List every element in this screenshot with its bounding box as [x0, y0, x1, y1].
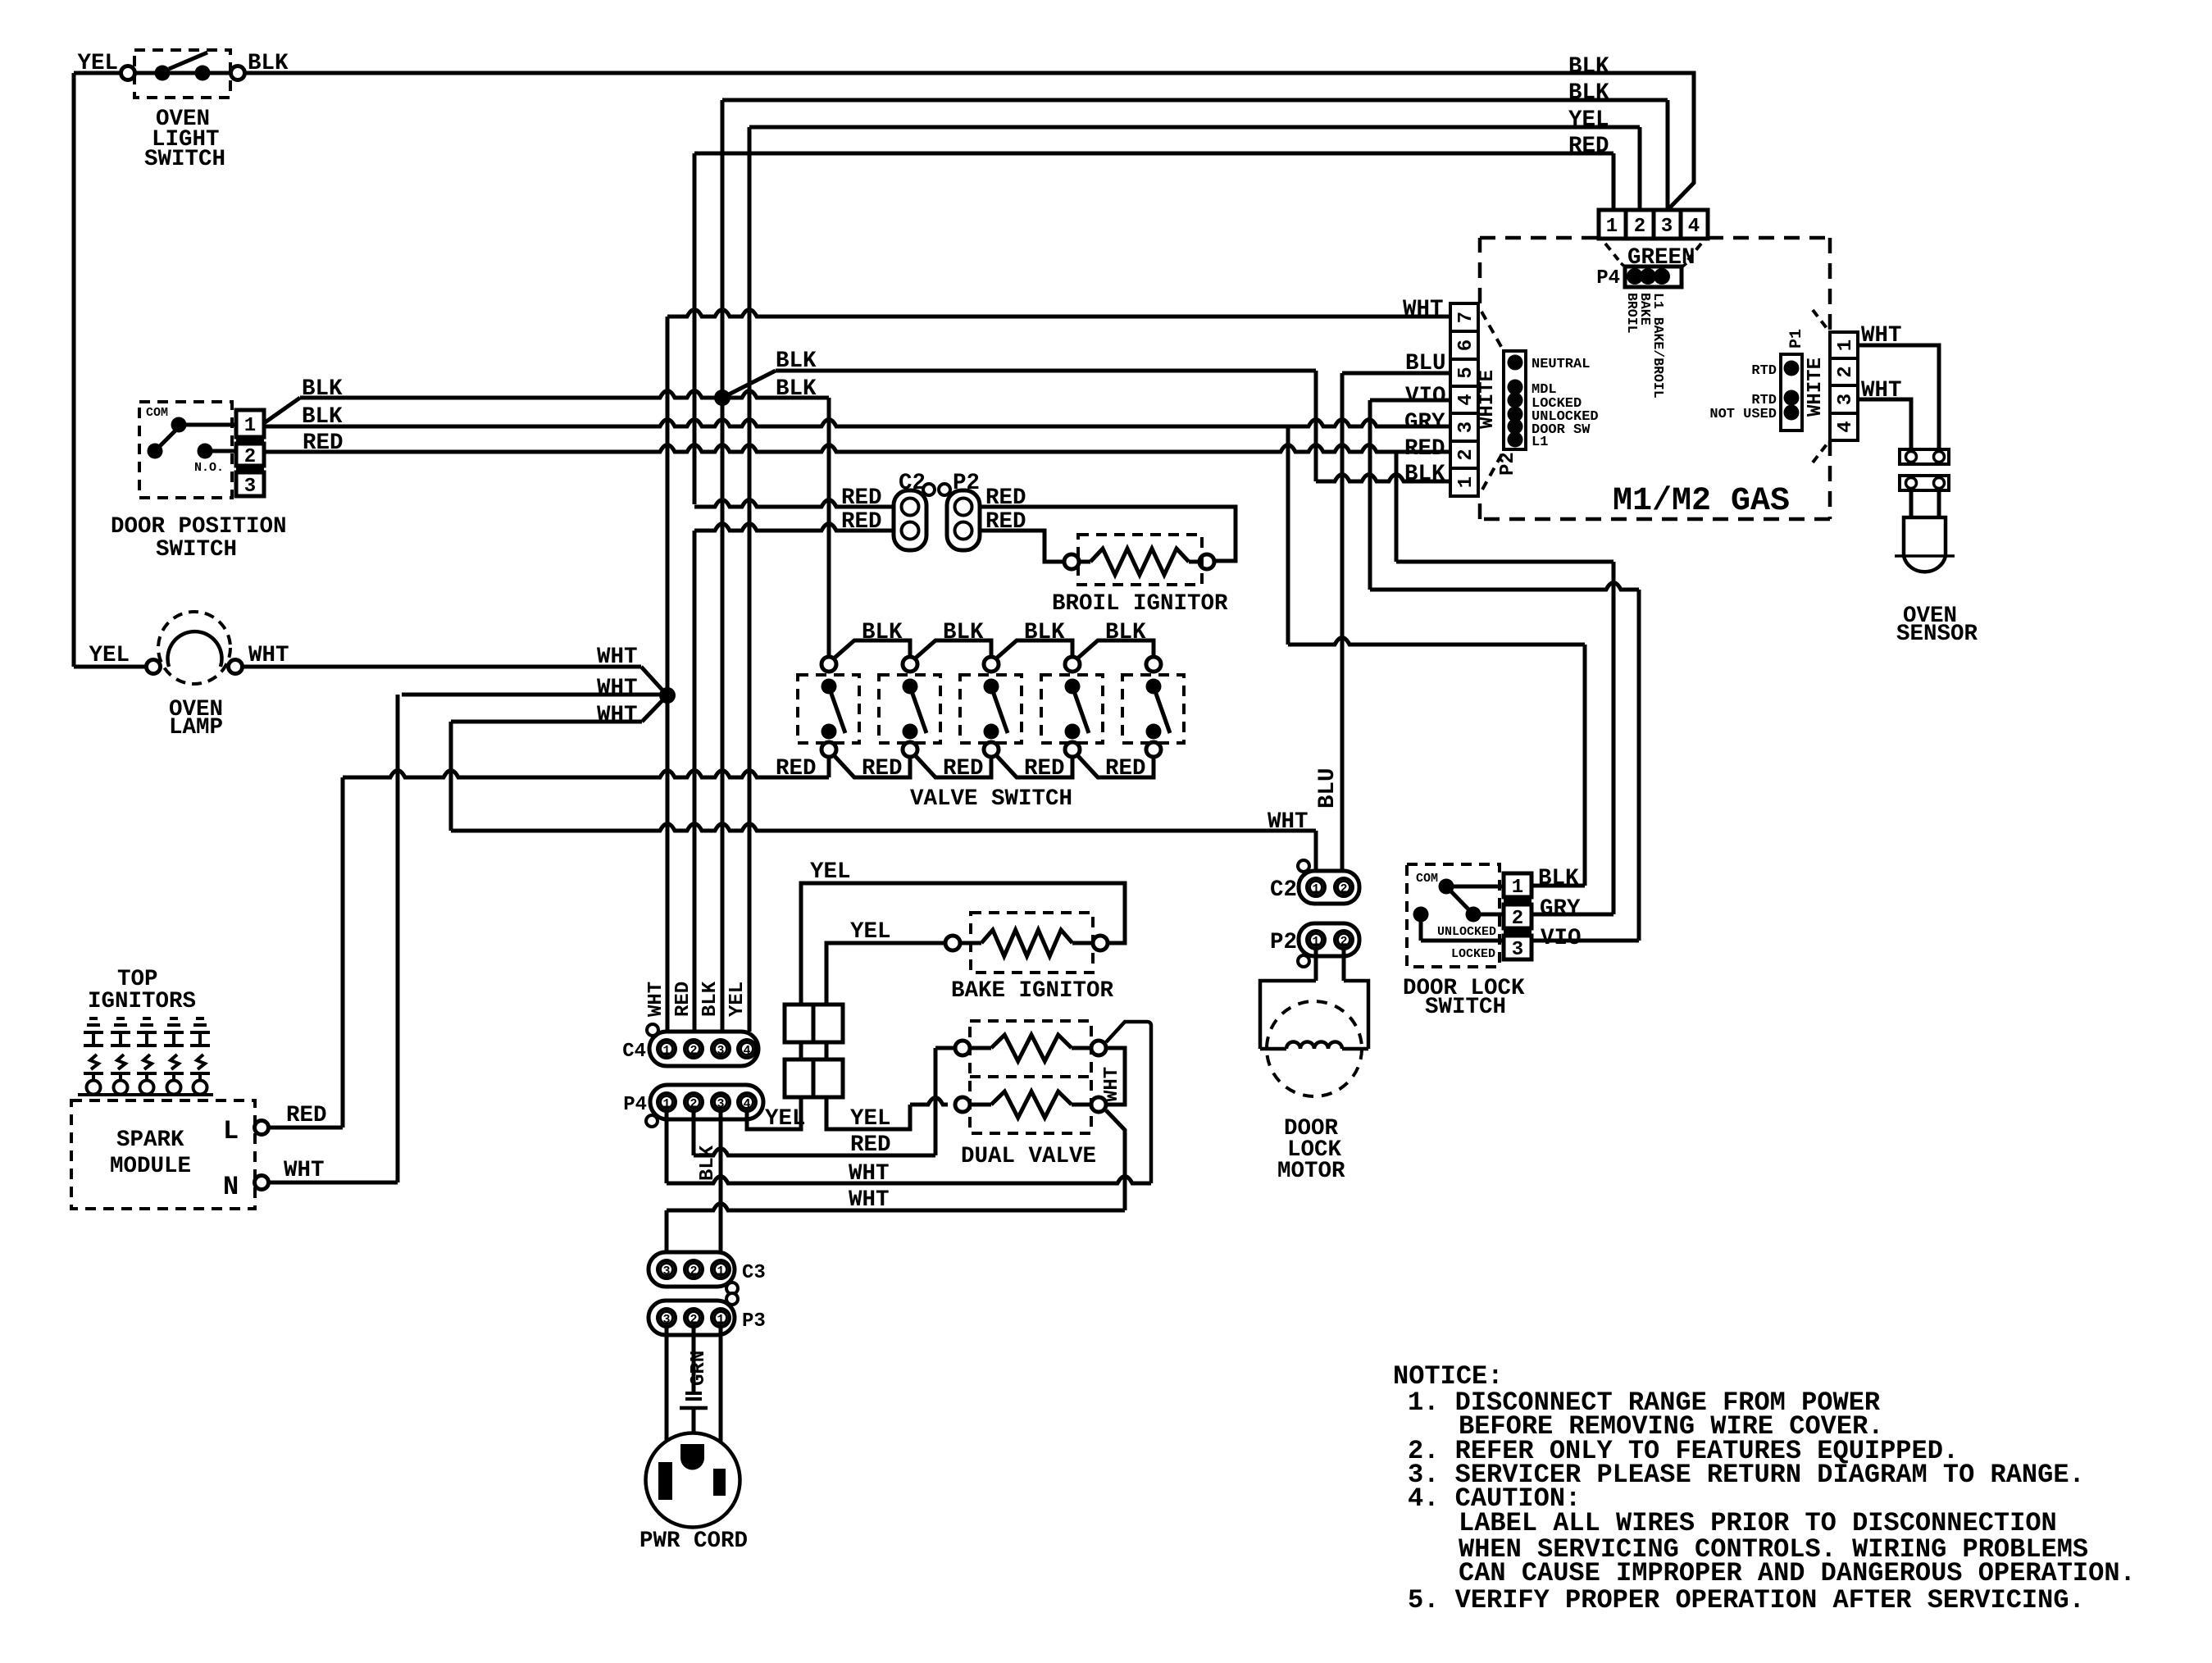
svg-text:RED: RED [672, 982, 694, 1017]
door lock switch SW3 [1407, 864, 1500, 967]
svg-text:SWITCH: SWITCH [144, 147, 225, 172]
vertical bus YEL x914 (to C4 pin 4) [748, 127, 752, 1032]
svg-text:IGNITORS: IGNITORS [88, 989, 196, 1014]
svg-text:LOCKED: LOCKED [1451, 947, 1495, 961]
spark module [71, 1100, 255, 1209]
svg-text:WHT: WHT [1403, 297, 1444, 322]
svg-text:C2: C2 [1270, 877, 1297, 903]
wire: RED from P2 to broil ignitor left side [980, 531, 1064, 562]
svg-text:CAN CAUSE IMPROPER AND DANGERO: CAN CAUSE IMPROPER AND DANGEROUS OPERATI… [1459, 1558, 2136, 1588]
valve switch SW4-5 [1122, 675, 1184, 743]
WHT link joining dual valve right terminals [1106, 1048, 1125, 1105]
svg-text:C4: C4 [622, 1041, 646, 1063]
wire: RED from spark module L terminal to valve switch feed [268, 1126, 343, 1130]
wires from P3 to power cord plug [665, 1328, 669, 1462]
wire: BLK from bus x881 to GREEN pin 3 [722, 98, 1668, 103]
svg-text:1: 1 [717, 1264, 724, 1278]
top ignitor electrode 2 [116, 1017, 125, 1020]
svg-text:3: 3 [244, 476, 256, 498]
WHT junction dot on bus x814 [659, 687, 676, 704]
svg-text:YEL: YEL [77, 51, 118, 76]
svg-text:2: 2 [1835, 366, 1857, 377]
svg-text:2: 2 [690, 1044, 697, 1058]
vertical bus BLK x881 (to C4 pin 3) [721, 100, 725, 1032]
svg-text:1: 1 [1455, 476, 1477, 488]
svg-text:L1: L1 [1532, 435, 1548, 450]
svg-text:1: 1 [1312, 935, 1319, 949]
svg-text:WHT: WHT [645, 982, 667, 1017]
svg-text:P3: P3 [742, 1310, 766, 1333]
svg-text:2: 2 [690, 1097, 697, 1111]
valve switch SW4-1 [798, 675, 859, 743]
svg-text:1: 1 [662, 1044, 670, 1058]
vertical bus RED x847 upper segment (to C2 pin 1) [693, 153, 697, 504]
wire: YEL from bus x914 to GREEN pin 2 [749, 125, 1640, 130]
wire: RED link valve switch 3 to 4 [996, 755, 1072, 777]
oven lamp LP1 [158, 612, 230, 684]
svg-text:5: 5 [1455, 367, 1477, 378]
svg-text:BLU: BLU [1315, 768, 1340, 809]
svg-text:YEL: YEL [765, 1106, 806, 1132]
svg-text:SWITCH: SWITCH [156, 537, 237, 563]
svg-text:P2: P2 [1270, 930, 1297, 955]
svg-text:L: L [223, 1116, 239, 1146]
P3 connector [649, 1301, 735, 1335]
door position switch SW2 [139, 402, 232, 498]
svg-text:RED: RED [1404, 436, 1445, 462]
top ignitor electrode 5 [196, 1017, 204, 1020]
svg-text:BLK: BLK [776, 349, 817, 374]
wire: BLK from P4 pin3 down to C3 pin1 [719, 1112, 723, 1252]
svg-text:WHT: WHT [1101, 1067, 1123, 1102]
valve switch SW4-2 [879, 675, 940, 743]
M1/M2 P1 connector (oven sensor RTD) [1813, 310, 1829, 462]
wire: WHT from oven lamp to WHT junction dot [242, 665, 641, 669]
wire: YEL from fuse box A to bake ignitor left side [826, 943, 945, 1005]
oven sensor bulb [1904, 517, 1946, 556]
svg-text:2: 2 [1512, 908, 1523, 930]
svg-text:N: N [223, 1172, 239, 1202]
svg-text:YEL: YEL [726, 982, 749, 1017]
svg-text:RED: RED [303, 431, 344, 456]
svg-text:RED: RED [943, 756, 984, 781]
wire: WHT to M1/M2 P2 pin 7 [667, 310, 1450, 317]
svg-text:WHT: WHT [1861, 378, 1902, 403]
svg-text:M1/M2 GAS: M1/M2 GAS [1613, 483, 1790, 520]
svg-text:2: 2 [690, 1264, 697, 1278]
wire: YEL from P4 pin4 up to fuse box B [747, 1097, 801, 1129]
door lock motor M1 [1314, 950, 1318, 981]
svg-text:WHT: WHT [849, 1187, 890, 1213]
M1/M2 GAS control dashed box [1480, 238, 1830, 519]
svg-text:5. VERIFY PROPER OPERATION AFT: 5. VERIFY PROPER OPERATION AFTER SERVICI… [1408, 1585, 2085, 1615]
svg-text:WHT: WHT [597, 676, 638, 701]
wire: WHT from P4 pin1 to dual valve right side [665, 1112, 669, 1183]
svg-text:BAKE IGNITOR: BAKE IGNITOR [951, 978, 1114, 1004]
svg-text:P1: P1 [1787, 329, 1806, 349]
svg-text:4: 4 [743, 1097, 750, 1111]
wire: main top BLK wire from oven light switch to GREEN pin 4 [244, 73, 1694, 210]
svg-text:WHT: WHT [1861, 323, 1902, 349]
svg-text:RED: RED [841, 509, 882, 535]
svg-text:WHT: WHT [284, 1158, 325, 1183]
oven sensor terminal blocks [1900, 449, 1949, 464]
door lock switch connector 1-2-3 [1504, 873, 1532, 897]
svg-text:3: 3 [717, 1044, 724, 1058]
svg-text:SPARK: SPARK [116, 1128, 184, 1153]
svg-text:VIO: VIO [1541, 926, 1582, 951]
wire: YEL from fuse box B to dual valve lower coil [826, 1097, 910, 1129]
wire: WHT from P1 pin 1 to oven sensor [1858, 345, 1939, 449]
wire: RED from bus x847 to GREEN pin 1 [694, 152, 1613, 156]
wire: WHT from dual valve lower right to C3 pin 3 [1106, 1110, 1125, 1210]
svg-text:2: 2 [1340, 935, 1347, 949]
svg-text:P2: P2 [1497, 452, 1519, 476]
GREEN connector 1-4 on top of M1/M2 box [1599, 210, 1708, 239]
svg-text:3: 3 [1835, 394, 1857, 405]
wire: left YEL vertical bus from oven light switch down to oven lamp [74, 71, 121, 75]
svg-text:BLK: BLK [248, 51, 289, 76]
svg-text:1: 1 [717, 1313, 724, 1327]
wire: BLK/BLU horizontal y453 to P2 pin 1 via x1605 [776, 369, 1316, 373]
svg-text:4: 4 [743, 1044, 750, 1058]
svg-text:C2: C2 [899, 471, 926, 496]
svg-text:WHITE: WHITE [1805, 358, 1827, 417]
svg-text:4: 4 [1688, 216, 1700, 238]
branch RED down to door lock switch pin 2 [1395, 452, 1399, 562]
svg-text:RED: RED [1024, 756, 1065, 781]
svg-text:MODULE: MODULE [110, 1154, 191, 1179]
svg-text:4: 4 [1835, 421, 1857, 432]
svg-text:2: 2 [244, 446, 256, 468]
svg-text:YEL: YEL [850, 1106, 891, 1132]
svg-text:BLK: BLK [1568, 80, 1609, 106]
funnel + WHITE pin strip inside M1/M2 [1481, 312, 1504, 490]
svg-text:WHT: WHT [248, 643, 289, 668]
svg-text:1: 1 [244, 415, 256, 437]
svg-text:2: 2 [690, 1313, 697, 1327]
svg-text:BLK: BLK [1404, 462, 1445, 487]
svg-text:N.O.: N.O. [194, 461, 224, 475]
svg-text:WHITE: WHITE [1477, 370, 1499, 429]
top ignitor electrode 1 [89, 1017, 98, 1020]
svg-text:3: 3 [1455, 421, 1477, 433]
branch GRY down to door lock switch pin 1 [1286, 426, 1290, 645]
broil ignitor R1 [1064, 554, 1079, 569]
junction dot at BLK bus [722, 371, 776, 398]
svg-text:WHT: WHT [597, 703, 638, 728]
C2/P2 connector pair (broil circuit) [694, 500, 893, 508]
svg-text:RTD: RTD [1751, 363, 1777, 379]
svg-text:RED: RED [850, 1132, 891, 1158]
fuse box A (bake) [785, 1005, 843, 1042]
svg-text:BLK: BLK [302, 376, 343, 402]
wire: RED from P4 pin2 to dual valve upper coil [692, 1112, 696, 1155]
svg-text:P4: P4 [1596, 267, 1620, 289]
svg-text:L1 BAKE/BROIL: L1 BAKE/BROIL [1650, 293, 1666, 399]
svg-text:BLU: BLU [1405, 351, 1446, 376]
BLK daisy chain on valve switch tops [834, 640, 910, 658]
wire: RED link valve switch 2 to 3 [915, 755, 991, 777]
door lock motor C2/P2 connector pair [1340, 871, 1345, 878]
wire: WHT from junction down-left to door lock motor C2 pin 1 [451, 720, 642, 724]
svg-text:BLK: BLK [1024, 620, 1065, 645]
svg-text:GRY: GRY [1404, 410, 1445, 435]
top ignitor electrode 4 [170, 1017, 178, 1020]
power cord plug [646, 1433, 740, 1528]
valve switch SW4-4 [1041, 675, 1103, 743]
svg-text:YEL: YEL [810, 859, 851, 885]
wire: YEL from fuse box A to bake ignitor right side [801, 883, 1125, 1005]
svg-text:RED: RED [776, 756, 817, 781]
svg-text:UNLOCKED: UNLOCKED [1437, 925, 1496, 939]
svg-text:RED: RED [1568, 134, 1609, 159]
svg-text:1: 1 [1512, 877, 1523, 899]
svg-text:3: 3 [1661, 216, 1673, 238]
svg-text:DOOR POSITION: DOOR POSITION [111, 514, 287, 540]
svg-text:BLK: BLK [1568, 54, 1609, 80]
wire: BLK y485 from door position switch to valve switch feed x1011 [264, 398, 300, 423]
svg-text:SWITCH: SWITCH [1425, 995, 1506, 1020]
fuse box B (dual valve) [785, 1059, 843, 1097]
C4 connector [649, 1032, 758, 1066]
svg-text:GRY: GRY [1540, 896, 1581, 922]
svg-text:BLK: BLK [302, 404, 343, 430]
svg-text:P4: P4 [623, 1094, 647, 1116]
svg-text:MOTOR: MOTOR [1277, 1159, 1345, 1184]
door position switch connector 1-2-3 [236, 410, 264, 437]
svg-text:PWR CORD: PWR CORD [639, 1529, 748, 1554]
svg-text:DUAL VALVE: DUAL VALVE [961, 1144, 1096, 1169]
wire: RED link valve switch 4 to 5 [1077, 755, 1154, 777]
svg-text:WHT: WHT [597, 645, 638, 670]
P4 pin strip of M1/M2 (L1 BAKE/BROIL) [1621, 263, 1686, 268]
svg-text:4: 4 [1455, 394, 1477, 405]
svg-text:YEL: YEL [89, 643, 130, 668]
wire: GRY y520 from door position pin1 to P2 pin 3 [264, 420, 1450, 427]
svg-text:VALVE SWITCH: VALVE SWITCH [910, 786, 1072, 812]
svg-text:1: 1 [1312, 882, 1319, 896]
dual valve (two coils) [970, 1021, 1091, 1133]
svg-text:1: 1 [1606, 216, 1618, 238]
top ignitor electrode 3 [143, 1017, 151, 1020]
C3 connector [649, 1252, 735, 1287]
svg-text:GRN: GRN [688, 1351, 710, 1386]
svg-text:NOT USED: NOT USED [1709, 407, 1777, 422]
wire: RED link valve switch 1 to 2 [834, 755, 910, 777]
svg-text:1: 1 [1835, 339, 1857, 351]
svg-text:3: 3 [662, 1264, 670, 1278]
svg-text:1: 1 [662, 1097, 670, 1111]
svg-text:2: 2 [1455, 449, 1477, 460]
svg-text:RED: RED [841, 485, 882, 511]
svg-text:WHT: WHT [849, 1161, 890, 1187]
bake ignitor R2 [945, 936, 960, 950]
svg-text:NEUTRAL: NEUTRAL [1532, 357, 1590, 372]
svg-text:3: 3 [717, 1097, 724, 1111]
svg-text:COM: COM [1416, 872, 1438, 886]
svg-text:BLK: BLK [1105, 620, 1146, 645]
svg-text:BLK: BLK [1538, 866, 1579, 891]
svg-text:COM: COM [146, 406, 168, 420]
svg-text:6: 6 [1455, 339, 1477, 351]
svg-text:RED: RED [862, 756, 903, 781]
vertical bus WHT x814 (P2 pin7 to C4 pin 1) [666, 317, 670, 1032]
svg-text:P2: P2 [953, 471, 980, 496]
svg-text:2: 2 [1340, 882, 1347, 896]
wire: RED y551 from door position pin2 to P2 pin 2 [264, 445, 1450, 453]
svg-text:YEL: YEL [850, 919, 891, 945]
svg-text:3: 3 [662, 1313, 670, 1327]
oven light switch SW1 [134, 50, 230, 98]
svg-text:3: 3 [1512, 939, 1523, 961]
wire: VIO from P2 pin 4 to door lock switch pin 3 [1370, 399, 1450, 403]
svg-text:RED: RED [286, 1103, 327, 1128]
svg-text:7: 7 [1455, 312, 1477, 323]
svg-text:BLK: BLK [943, 620, 984, 645]
svg-text:YEL: YEL [1568, 107, 1609, 133]
svg-text:2: 2 [1634, 216, 1645, 238]
svg-text:BLK: BLK [697, 1145, 719, 1181]
svg-text:BLK: BLK [862, 620, 903, 645]
wire: WHT from P1 pin 3 to oven sensor [1858, 399, 1911, 449]
M1/M2 P2 connector 7-pin column [1450, 468, 1478, 496]
svg-text:BROIL IGNITOR: BROIL IGNITOR [1052, 591, 1228, 617]
svg-text:SENSOR: SENSOR [1896, 622, 1978, 647]
ground symbol [685, 1392, 702, 1395]
wire: RED from P2 to broil ignitor right side [980, 507, 1236, 561]
svg-text:BLK: BLK [699, 981, 721, 1017]
svg-text:VIO: VIO [1405, 384, 1446, 409]
wire: BLU from P2 pin 5 down to door lock motor C2 pin 2 [1342, 371, 1450, 376]
svg-text:WHT: WHT [1268, 809, 1309, 835]
svg-text:C3: C3 [742, 1262, 766, 1284]
wire: WHT from junction to spark module N terminal [402, 693, 661, 697]
valve switch SW4-3 [960, 675, 1022, 743]
P4 connector [650, 1085, 763, 1119]
svg-text:RED: RED [1105, 756, 1146, 781]
vertical bus RED x847 lower segment (to C4 pin 2) [693, 531, 697, 1032]
svg-text:LAMP: LAMP [169, 715, 223, 740]
